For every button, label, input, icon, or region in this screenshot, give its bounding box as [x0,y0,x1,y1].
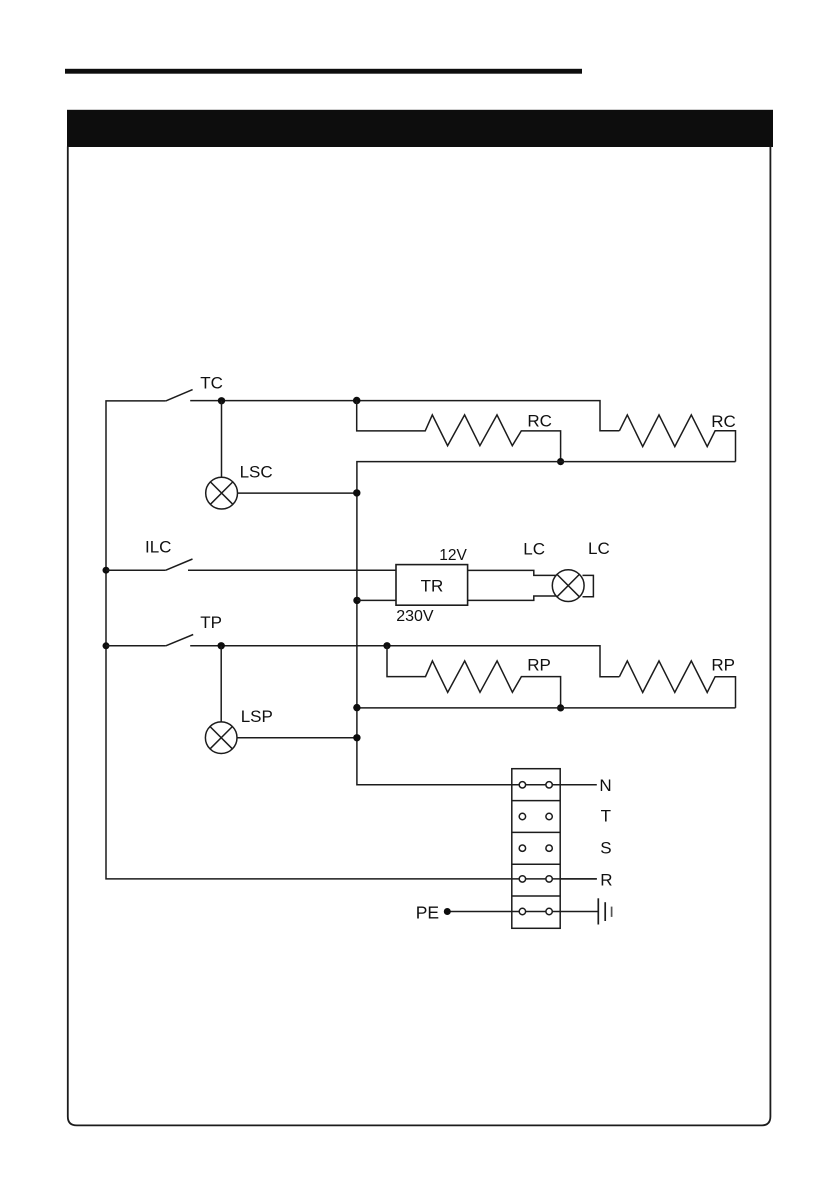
wire: TC output to node A [190,401,619,431]
lamp LC socket bracket [583,575,594,596]
transformer TR [396,565,468,606]
wire: left rail with R feed (node R) [106,401,597,879]
svg-text:N: N [599,776,611,795]
node A junction [353,397,361,405]
resistor RP (left) [387,646,561,708]
svg-text:12V: 12V [439,547,467,564]
svg-text:TR: TR [421,576,444,595]
terminal block X1 [512,769,560,929]
svg-text:230V: 230V [396,608,434,625]
wire: LSP to central rail [237,737,357,739]
node: LSP junction [353,734,360,741]
wire: R terminal to R label [560,878,597,880]
svg-text:TC: TC [200,374,223,393]
node: RC rail junction [557,458,564,465]
svg-text:LSC: LSC [240,463,273,482]
ground symbol [598,898,611,924]
svg-text:LC: LC [523,539,545,558]
wire: ILC input [106,569,166,571]
node: ILC tap on left rail [103,567,110,574]
wire: TP node to lamp LSP [220,646,222,722]
switch TP [166,635,193,646]
terminal pins row R [519,876,552,882]
node: RP rail junction [557,704,564,711]
svg-text:T: T [601,807,611,826]
svg-text:RP: RP [711,656,735,675]
page frame border [68,147,771,1126]
svg-text:RC: RC [711,412,736,431]
terminal pins row T [519,813,552,819]
wire: TR secondary top to lamp LC [468,570,557,575]
svg-text:S: S [600,839,611,858]
lamp LSC [206,477,238,509]
node: RP rail to central rail junction [353,704,360,711]
node: PE dot [444,908,451,915]
resistor RP (right) [619,661,735,708]
switch ILC [166,559,193,570]
wire: RP bottom rail to central rail [357,707,736,709]
svg-text:PE: PE [416,902,439,922]
svg-text:ILC: ILC [145,538,171,557]
wire: LSC to central rail [238,492,357,494]
lamp LSP [205,722,237,754]
svg-text:RP: RP [527,656,551,675]
wire: central rail to TR primary [357,599,396,601]
wire: PE dot to earth [447,911,598,913]
lamp LC [552,570,584,602]
title underline bar [65,69,582,74]
terminal pins row S [519,845,552,851]
node: TP junction [218,642,225,649]
switch TC [166,390,193,401]
wire: TP input [106,645,166,647]
svg-text:LC: LC [588,539,610,558]
terminal pins row PE [519,908,552,914]
node: TR primary tap on central rail [353,597,360,604]
node: LSC junction [353,489,360,496]
svg-text:LSP: LSP [241,707,273,726]
resistor RC (left) [357,401,561,462]
terminal pins row N [519,782,552,788]
svg-text:R: R [600,871,612,890]
svg-text:RC: RC [527,412,552,431]
node: TC junction [218,397,225,404]
wire: RC bottom rail into central rail down to N terminal [357,462,736,785]
wire: TC node to lamp LSC [221,401,223,478]
svg-text:TP: TP [200,613,222,632]
wire: ILC output to transformer TR [188,569,396,571]
node: RP left branch junction [383,642,390,649]
node: TP tap on left rail [103,642,110,649]
resistor RC (right) [619,415,735,462]
wire: TP output across to RP network [190,646,619,677]
wire: TR secondary bottom to lamp LC [468,596,557,600]
header black bar [67,110,773,147]
